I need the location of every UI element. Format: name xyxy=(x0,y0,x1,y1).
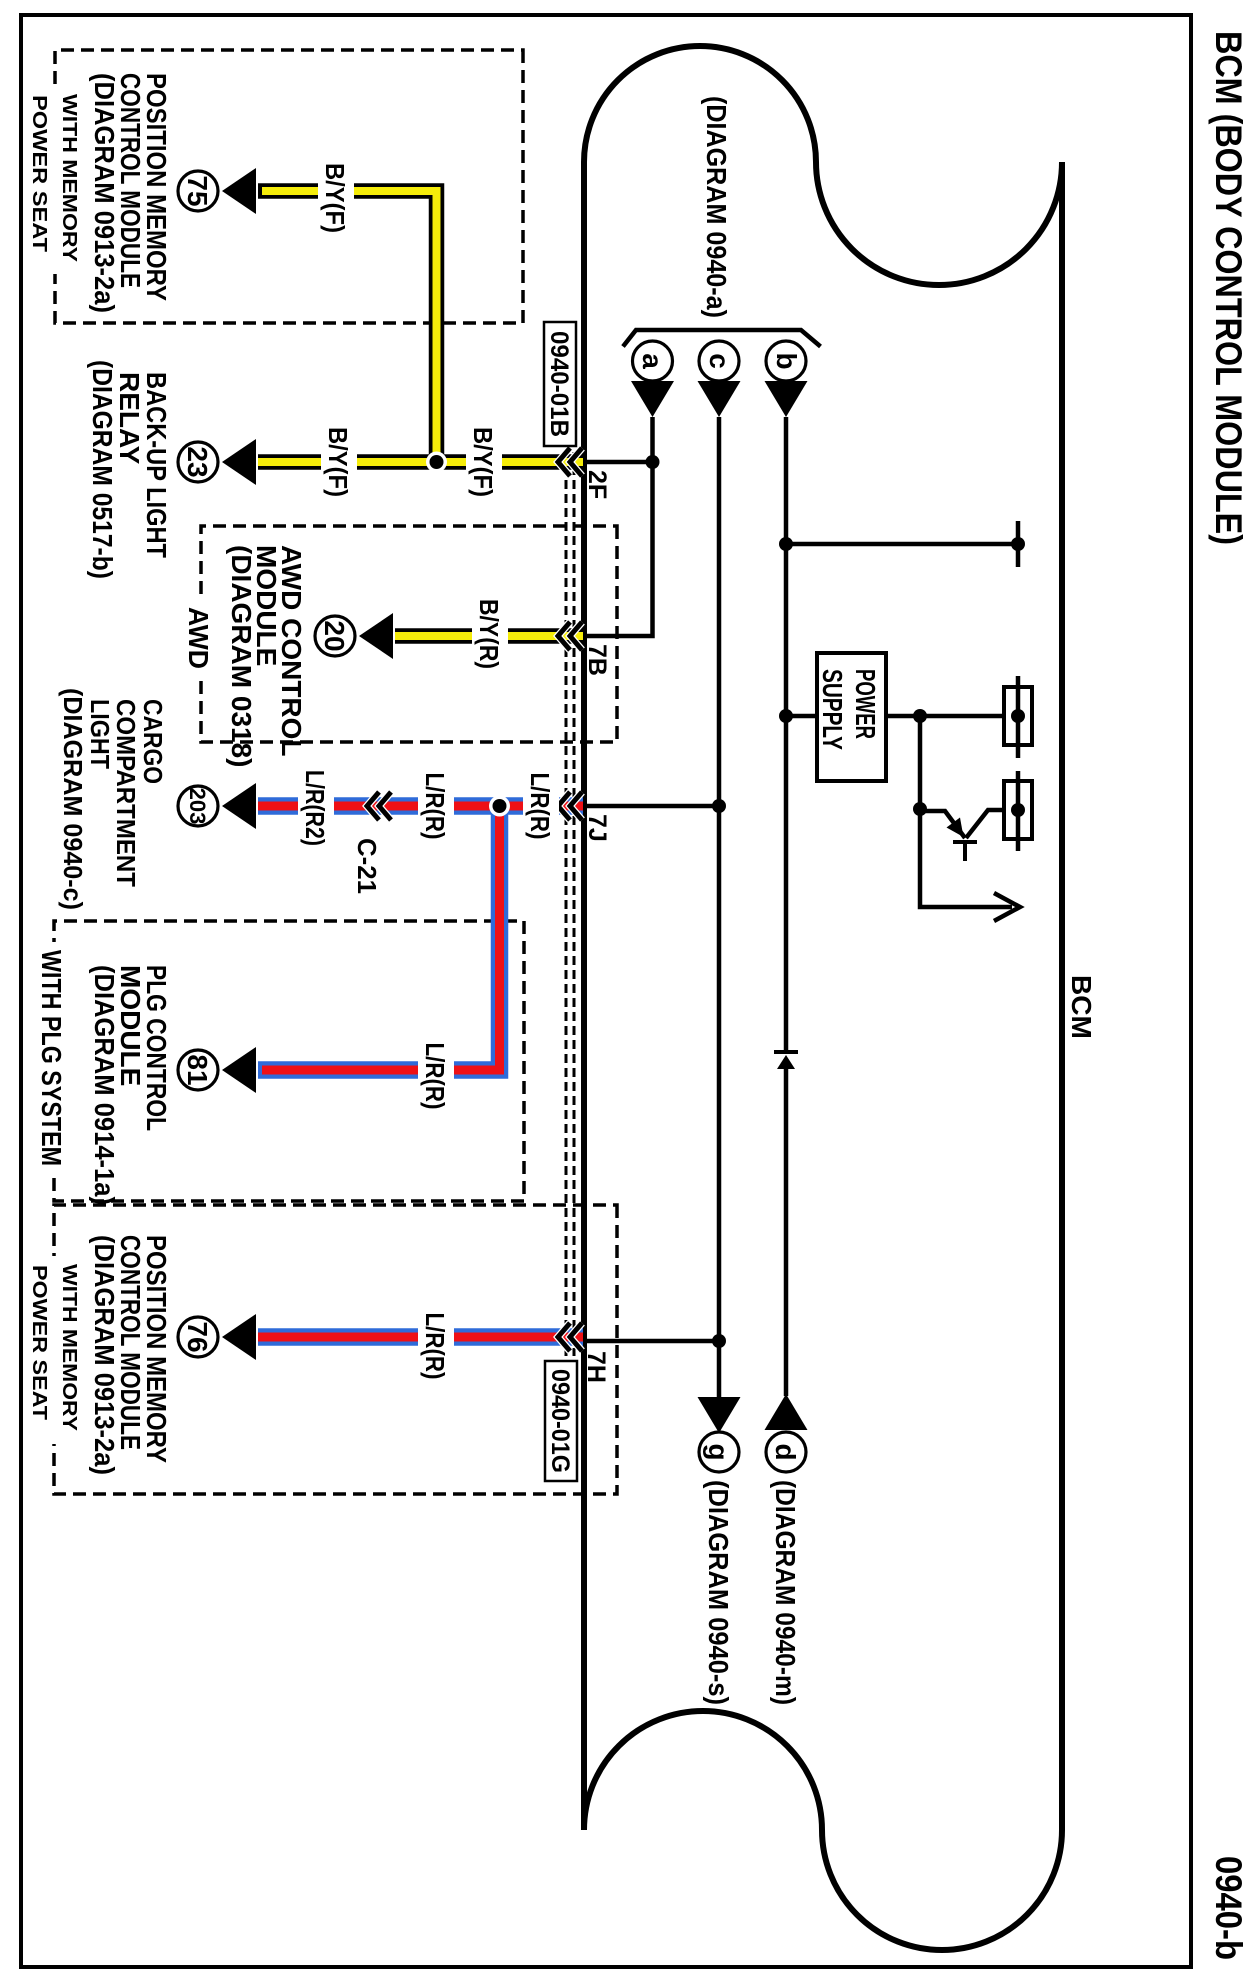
svg-text:WITH PLG SYSTEM: WITH PLG SYSTEM xyxy=(36,950,67,1166)
terminal circle 81 xyxy=(178,1050,218,1090)
terminal arrow 23 xyxy=(222,439,256,485)
dashed box AWD xyxy=(201,526,617,742)
diode D1 triangle xyxy=(777,1055,795,1069)
wire label L/R(R) on 81 branch xyxy=(418,1040,454,1113)
wire label B/Y(F) on 2F near pin xyxy=(466,425,502,498)
caption WITH PLG SYSTEM xyxy=(33,942,69,1174)
svg-text:BCM (BODY CONTROL MODULE): BCM (BODY CONTROL MODULE) xyxy=(1208,31,1249,545)
output wire with arrow xyxy=(920,809,1012,907)
dashed box WITH MEMORY POWER SEAT (pin 75) xyxy=(55,50,523,323)
caption WITH MEMORY POWER SEAT (bottom box) xyxy=(27,1256,81,1444)
svg-text:a: a xyxy=(637,353,668,369)
svg-text:L/R(R): L/R(R) xyxy=(525,773,555,840)
link arrow d xyxy=(765,1394,808,1430)
svg-text:(DIAGRAM 0913-2a): (DIAGRAM 0913-2a) xyxy=(89,73,120,313)
chevron pin 7H xyxy=(558,1323,582,1351)
terminal circle 23 xyxy=(178,442,218,482)
svg-text:B/Y(R): B/Y(R) xyxy=(474,599,504,669)
svg-text:(DIAGRAM 0940-s): (DIAGRAM 0940-s) xyxy=(703,1480,734,1705)
wire c-line internal xyxy=(717,417,722,1341)
terminal circle 203 xyxy=(178,786,218,826)
wire a-line internal xyxy=(585,417,653,636)
svg-text:76: 76 xyxy=(182,1321,213,1352)
svg-text:CARGO: CARGO xyxy=(138,699,168,784)
connector label 0940-01G xyxy=(545,1361,577,1481)
link arrow b xyxy=(765,381,808,417)
wire 7H internal xyxy=(585,1339,719,1344)
svg-text:2F: 2F xyxy=(583,470,611,499)
svg-text:L/R(R): L/R(R) xyxy=(420,773,450,840)
wire label L/R(R) on 7J near pin xyxy=(523,770,559,843)
svg-text:(DIAGRAM 0940-c): (DIAGRAM 0940-c) xyxy=(58,688,88,910)
svg-text:7H: 7H xyxy=(582,1351,610,1383)
terminal crossbar xyxy=(1016,521,1021,567)
svg-text:0940-01B: 0940-01B xyxy=(545,331,573,437)
link arrow a xyxy=(631,381,674,417)
svg-text:WITH MEMORY: WITH MEMORY xyxy=(58,94,80,263)
terminal arrow 76 xyxy=(222,1314,256,1360)
wire b-line internal xyxy=(784,417,789,1051)
svg-text:C-21: C-21 xyxy=(352,838,382,894)
svg-text:B/Y(F): B/Y(F) xyxy=(323,427,353,497)
svg-text:AWD: AWD xyxy=(183,607,214,669)
svg-text:SUPPLY: SUPPLY xyxy=(817,669,848,750)
wire 7B B/Y yellow xyxy=(395,628,583,644)
link circle b xyxy=(766,341,806,381)
svg-text:81: 81 xyxy=(182,1054,213,1085)
link circle c xyxy=(699,341,739,381)
svg-text:b: b xyxy=(771,352,802,369)
wire label L/R(R) on 7J lower xyxy=(418,770,454,843)
node transistor junction xyxy=(913,802,927,816)
caption AWD xyxy=(183,600,215,678)
chevron connector C-21 xyxy=(367,792,391,820)
caption WITH MEMORY POWER SEAT (top box) xyxy=(27,86,81,274)
node b-line T-branch xyxy=(779,537,793,551)
transistor Q1 arrowhead xyxy=(947,818,964,838)
node on a-line xyxy=(646,455,660,469)
wire bus to transistor xyxy=(918,716,923,809)
wire label L/R(R) on 7H xyxy=(418,1310,454,1383)
svg-text:WITH MEMORY: WITH MEMORY xyxy=(58,1264,80,1432)
svg-text:23: 23 xyxy=(182,446,213,477)
svg-text:20: 20 xyxy=(319,620,350,651)
wire 7J L/R blue-red xyxy=(258,797,583,815)
node fuse F1 xyxy=(1011,709,1025,723)
terminal arrow 81 xyxy=(222,1047,256,1093)
diode D1 bar xyxy=(774,1050,798,1054)
svg-text:d: d xyxy=(770,1443,801,1460)
node PS-fuse bus xyxy=(913,709,927,723)
wire 2F B/Y yellow xyxy=(258,454,583,470)
terminal arrow 203 xyxy=(222,783,256,829)
connector label 0940-01B xyxy=(544,322,576,446)
node on c-line 7H xyxy=(712,1334,726,1348)
connector dashed line 1 xyxy=(573,452,576,1356)
chevron pin 2F xyxy=(558,448,582,476)
wire label B/Y(F) on 75 branch xyxy=(318,162,354,235)
svg-text:(DIAGRAM 0940-a): (DIAGRAM 0940-a) xyxy=(701,96,732,318)
BCM body outline xyxy=(584,46,1062,1950)
chevron pin 7B xyxy=(558,622,582,650)
wire T-branch xyxy=(786,542,1018,547)
wire 7J internal xyxy=(585,804,719,809)
junction dot on 2F wire xyxy=(426,452,447,473)
wire power supply to fuse xyxy=(887,714,1016,719)
wire label B/Y(F) on 2F lower xyxy=(321,425,357,498)
svg-text:203: 203 xyxy=(185,788,210,825)
wire g branch xyxy=(717,1341,722,1400)
wire b-line to d xyxy=(784,1069,789,1396)
svg-text:7B: 7B xyxy=(583,644,611,676)
fuse F1 xyxy=(1004,687,1032,745)
svg-text:POWER SEAT: POWER SEAT xyxy=(28,1265,50,1420)
svg-text:B/Y(F): B/Y(F) xyxy=(320,163,350,233)
svg-text:(DIAGRAM 0318): (DIAGRAM 0318) xyxy=(226,545,257,767)
fuse F2 xyxy=(1004,781,1032,839)
wire label B/Y(R) on 7B xyxy=(472,598,508,671)
link arrow c xyxy=(698,381,741,417)
svg-text:c: c xyxy=(704,353,735,369)
svg-text:(DIAGRAM 0940-m): (DIAGRAM 0940-m) xyxy=(770,1480,801,1705)
power supply box xyxy=(817,653,886,781)
node on c-line 7J xyxy=(712,799,726,813)
wire 75 branch B/Y yellow xyxy=(258,191,437,462)
svg-text:(DIAGRAM 0517-b): (DIAGRAM 0517-b) xyxy=(87,360,118,579)
transistor Q1 right arm xyxy=(966,810,1004,838)
terminal circle 20 xyxy=(315,616,355,656)
link arrow g xyxy=(698,1397,741,1433)
fuse F2 through line xyxy=(1016,771,1021,851)
svg-text:B/Y(F): B/Y(F) xyxy=(468,427,498,497)
transistor Q1 left arm xyxy=(920,811,965,838)
transistor Q1 emitter bar xyxy=(953,840,977,844)
fuse F1 through line xyxy=(1016,676,1021,758)
link circle d xyxy=(766,1432,806,1472)
svg-text:L/R(R2): L/R(R2) xyxy=(300,770,330,846)
svg-text:75: 75 xyxy=(182,175,213,206)
svg-text:g: g xyxy=(703,1443,734,1460)
wire 7H L/R blue-red xyxy=(258,1328,583,1346)
node fuse F2 xyxy=(1011,803,1025,817)
svg-text:(DIAGRAM 0914-1a): (DIAGRAM 0914-1a) xyxy=(89,965,120,1205)
node terminal crossbar xyxy=(1011,537,1025,551)
wire power supply branch xyxy=(786,714,816,719)
wire 2F internal xyxy=(585,460,653,465)
svg-text:BCM: BCM xyxy=(1066,975,1097,1039)
terminal arrow 75 xyxy=(222,168,256,214)
link circle g xyxy=(699,1432,739,1472)
terminal arrow 20 xyxy=(359,613,393,659)
svg-text:0940-01G: 0940-01G xyxy=(546,1369,574,1473)
junction dot on 7J wire xyxy=(489,796,510,817)
dashed box WITH MEMORY POWER SEAT (pin 76) xyxy=(54,1205,617,1494)
svg-text:L/R(R): L/R(R) xyxy=(420,1313,450,1380)
connector dashed line 2 xyxy=(565,452,568,1356)
wire 81 branch L/R blue-red xyxy=(258,806,500,1070)
svg-text:LIGHT: LIGHT xyxy=(85,699,115,769)
node b-line PS branch xyxy=(779,709,793,723)
bracket for a c b xyxy=(623,330,821,347)
transistor Q1 emitter stub xyxy=(963,840,967,861)
terminal circle 75 xyxy=(178,171,218,211)
dashed box WITH PLG SYSTEM xyxy=(54,921,524,1201)
svg-text:L/R(R): L/R(R) xyxy=(420,1043,450,1110)
svg-text:0940-b: 0940-b xyxy=(1208,1856,1249,1960)
terminal circle 76 xyxy=(178,1317,218,1357)
chevron pin 7J xyxy=(558,792,582,820)
svg-text:POWER SEAT: POWER SEAT xyxy=(28,95,50,252)
svg-text:POWER: POWER xyxy=(850,669,881,739)
svg-text:7J: 7J xyxy=(583,814,611,842)
wire label L/R(R2) on 203 wire xyxy=(298,768,334,848)
svg-text:(DIAGRAM 0913-2a): (DIAGRAM 0913-2a) xyxy=(89,1235,120,1475)
link circle a xyxy=(633,341,673,381)
output arrowhead xyxy=(994,893,1020,921)
